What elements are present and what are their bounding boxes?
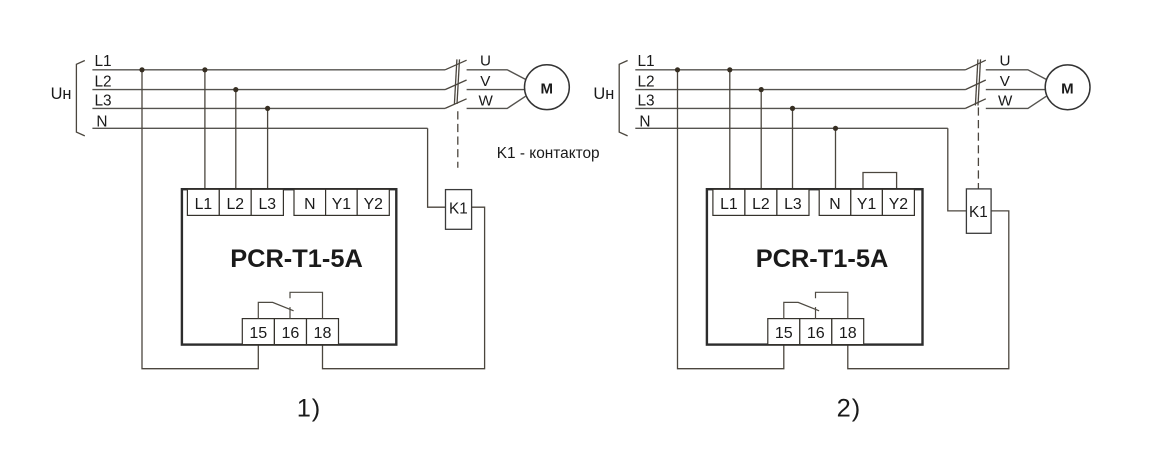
contactor K1 blade phase W (2)	[965, 99, 985, 109]
wire V to motor	[467, 89, 525, 91]
terminal L2 box	[219, 189, 251, 215]
svg-text:Uн: Uн	[593, 85, 614, 103]
wire L2 bus (2)	[635, 89, 965, 91]
junction dot L2/tap (2)	[759, 87, 764, 92]
wire N bus to K1 coil left	[428, 128, 446, 207]
relay PCR-T1-5A body (2)	[707, 189, 923, 344]
wire L3 bus (2)	[635, 107, 965, 109]
svg-text:16: 16	[281, 324, 299, 342]
svg-text:L2: L2	[638, 74, 655, 91]
jumper wire Y1-Y2 (2)	[863, 173, 897, 190]
wire L3 tap to relay terminal L3 (2)	[792, 108, 794, 189]
svg-text:K1: K1	[969, 204, 988, 221]
svg-text:1): 1)	[297, 394, 322, 422]
svg-text:N: N	[639, 113, 650, 130]
junction dot L3/tap	[265, 106, 270, 111]
terminal L1 box	[187, 189, 219, 215]
junction dot L1/tap	[202, 67, 207, 72]
terminal 18 box (2)	[832, 319, 864, 345]
contactor K1 blade phase V	[445, 80, 467, 90]
contactor K1 linkage bar 2 (2)	[978, 59, 981, 105]
wire L1 to terminal 15 (left loop)	[142, 70, 258, 369]
svg-text:M: M	[541, 80, 554, 97]
junction dot L1/left loop (2)	[675, 67, 680, 72]
svg-text:U: U	[1000, 53, 1011, 70]
svg-text:L2: L2	[95, 74, 112, 91]
terminal Y1 box	[326, 189, 358, 215]
contactor K1 blade phase V (2)	[965, 80, 985, 90]
wire N bus	[92, 127, 427, 129]
terminal Y2 box (2)	[882, 189, 914, 215]
terminal L3 box	[251, 189, 283, 215]
relay NO contact bracket to 18	[290, 292, 323, 318]
terminal 18 box	[307, 319, 339, 345]
svg-text:M: M	[1061, 80, 1074, 97]
svg-text:2): 2)	[837, 394, 862, 422]
svg-text:V: V	[1000, 73, 1011, 90]
junction dot L1/left loop	[139, 67, 144, 72]
wire V to motor (2)	[986, 89, 1045, 91]
wire N tap to relay terminal N (2)	[835, 128, 837, 189]
terminal 16 box	[274, 319, 306, 345]
svg-text:Y1: Y1	[332, 196, 352, 213]
junction dot L2/tap	[233, 87, 238, 92]
svg-text:18: 18	[839, 324, 857, 342]
mechanical link dashed to K1 coil	[457, 111, 459, 168]
net Uн supply bracket (2)	[619, 61, 627, 136]
contactor K1 linkage bar 1 (2)	[975, 59, 978, 105]
terminal L1 box (2)	[713, 189, 745, 215]
svg-text:W: W	[479, 93, 494, 110]
net Uн supply bracket	[76, 61, 84, 136]
wire N bus to K1 coil left (2)	[948, 128, 967, 211]
svg-text:18: 18	[314, 324, 332, 342]
wire L3 tap to relay terminal L3	[267, 108, 269, 189]
mechanical link dashed to K1 coil (2)	[977, 107, 979, 188]
wire W to motor (2)	[986, 96, 1046, 108]
svg-text:Y2: Y2	[889, 196, 908, 213]
svg-text:15: 15	[775, 324, 793, 342]
wire terminal 18 to K1 coil right (2)	[848, 211, 1009, 369]
contactor coil K1 box	[446, 190, 472, 230]
wire terminal 18 to K1 coil right	[323, 207, 485, 369]
svg-text:PCR-T1-5A: PCR-T1-5A	[756, 245, 889, 273]
motor M1 circle (2)	[1045, 65, 1090, 110]
svg-text:Uн: Uн	[51, 85, 72, 103]
wire L1 tap to relay terminal L1 (2)	[729, 70, 731, 190]
svg-text:K1 - контактор: K1 - контактор	[497, 145, 600, 162]
svg-text:L3: L3	[638, 92, 655, 109]
svg-text:L2: L2	[752, 196, 770, 213]
contactor K1 linkage bar 2	[457, 59, 460, 104]
svg-text:15: 15	[249, 324, 267, 342]
terminal Y2 box	[357, 189, 389, 215]
terminal Y1 box (2)	[851, 189, 883, 215]
terminal 16 box (2)	[800, 319, 832, 345]
svg-text:W: W	[998, 93, 1013, 110]
svg-text:L2: L2	[227, 196, 245, 213]
terminal 15 box	[242, 319, 274, 345]
terminal L2 box (2)	[745, 189, 777, 215]
svg-text:L3: L3	[784, 196, 802, 213]
wire L2 bus	[92, 89, 445, 91]
svg-text:V: V	[480, 73, 491, 90]
wire U to motor (2)	[986, 70, 1046, 80]
contactor K1 blade phase U (2)	[965, 60, 985, 70]
terminal L3 box (2)	[777, 189, 809, 215]
svg-text:Y1: Y1	[857, 196, 877, 213]
terminal N box (2)	[819, 189, 851, 215]
junction dot L1/tap (2)	[727, 67, 732, 72]
svg-text:L3: L3	[259, 196, 277, 213]
svg-text:K1: K1	[449, 200, 468, 217]
relay NC contact to 16	[289, 307, 291, 319]
svg-text:N: N	[829, 196, 840, 213]
wire W to motor	[467, 96, 526, 108]
wire L2 tap to relay terminal L2	[235, 90, 237, 190]
svg-text:N: N	[304, 196, 315, 213]
wire L1 bus (2)	[635, 69, 965, 71]
svg-text:L1: L1	[638, 53, 655, 70]
svg-text:U: U	[480, 53, 491, 70]
svg-text:L1: L1	[720, 196, 738, 213]
svg-text:16: 16	[807, 324, 825, 342]
terminal N box	[294, 189, 326, 215]
svg-text:Y2: Y2	[364, 196, 383, 213]
junction dot N/tap (2)	[833, 126, 838, 131]
junction dot L3/tap (2)	[790, 106, 795, 111]
wire L1 bus	[92, 69, 445, 71]
wire L2 tap to relay terminal L2 (2)	[760, 90, 762, 190]
motor M1 circle	[525, 65, 570, 110]
wire L1 to terminal 15 (left loop) (2)	[678, 70, 784, 369]
terminal 15 box (2)	[768, 319, 800, 345]
svg-text:L1: L1	[95, 53, 112, 70]
wire L1 tap to relay terminal L1	[204, 70, 206, 190]
contactor K1 blade phase W	[445, 99, 467, 109]
relay NC contact to 16 (2)	[815, 307, 817, 319]
wire N bus (2)	[635, 127, 948, 129]
relay NO contact bracket to 18 (2)	[816, 292, 848, 318]
contactor coil K1 box (2)	[966, 189, 991, 233]
relay contact armature from 15	[258, 302, 293, 318]
svg-text:PCR-T1-5A: PCR-T1-5A	[230, 245, 363, 273]
wire U to motor	[467, 70, 526, 80]
svg-text:N: N	[96, 113, 107, 130]
contactor K1 linkage bar 1	[454, 59, 457, 104]
relay PCR-T1-5A body	[182, 189, 396, 344]
svg-text:L3: L3	[95, 92, 112, 109]
relay contact armature from 15 (2)	[784, 302, 819, 318]
svg-text:L1: L1	[195, 196, 213, 213]
wire L3 bus	[92, 107, 445, 109]
contactor K1 blade phase U	[445, 60, 467, 70]
